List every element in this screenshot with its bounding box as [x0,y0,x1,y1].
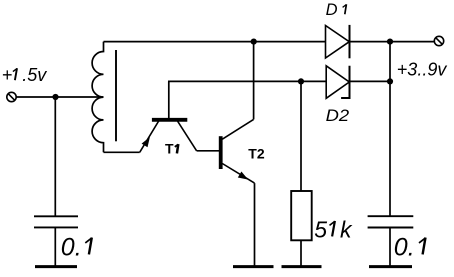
wire D1 cathode to terminal OUT [350,41,435,43]
svg-text:5: 5 [314,217,327,243]
label +1.5v [2,65,48,85]
label D1 [326,1,347,19]
svg-text:T2: T2 [248,146,265,162]
svg-text:0.: 0. [394,233,415,261]
resistor R1 body [291,191,312,240]
diode D1 cathode bar [349,25,351,58]
value 0.1 (C1) [61,233,92,261]
inductor L1 core [115,50,117,141]
node B junction [298,78,304,84]
diode D2 cathode bar with foot [341,66,349,98]
svg-text:.5v: .5v [22,65,47,85]
wire output node down to C2 [389,42,391,217]
svg-text:+: + [2,65,13,85]
wire R1 to ground [300,240,302,266]
wire node B down to R1 [300,81,302,191]
wire T1 collector to T2 base [197,150,219,152]
svg-text:D: D [326,1,338,19]
label T2 [248,146,265,162]
terminal IN (+1.5v) [7,92,16,101]
diode D1 triangle [326,26,350,59]
wire C1 to ground [54,227,56,266]
svg-text:D2: D2 [326,107,350,125]
svg-text:k: k [340,217,353,243]
node OUT lower junction [387,78,393,84]
svg-text:+3..9v: +3..9v [397,59,448,79]
wire input to coil tap [16,96,103,98]
label D2 [326,107,350,125]
capacitor C1 plates [34,216,78,227]
wire junction down to C1 [54,97,56,216]
transistor T2 base bar [219,136,223,169]
transistor T2 collector [222,119,253,139]
wire D2 cathode to output node [350,80,391,82]
terminal OUT (+3..9v) [434,36,443,45]
ground T2 [233,265,274,268]
transistor T1 base bar [152,118,187,122]
node A junction [251,39,257,45]
transistor T1 emitter [140,121,159,152]
diode D2 triangle [326,66,349,99]
wire T2 emitter to ground [254,183,256,266]
wire T2 collector to node A [253,42,255,120]
node OUT top junction [387,39,393,45]
value 51k (R1) [314,217,353,243]
svg-text:0.: 0. [61,233,82,261]
ground R1 [282,265,322,268]
node input/C1 junction [52,94,58,100]
wire T1 base to node B [168,80,326,82]
transistor T2 emitter [222,164,254,184]
svg-text:T: T [165,141,174,157]
ground C2 [369,265,412,268]
wire L1 bottom to T1 emitter [104,151,140,153]
capacitor C2 plates [368,216,414,227]
transistor T1 base lead [168,81,170,118]
label T1 [165,141,178,157]
value 0.1 (C2) [394,233,426,261]
wire C2 to ground [389,228,391,267]
inductor L1 winding [92,42,103,153]
label +3..9v [397,59,448,79]
ground C1 [35,265,77,268]
transistor T1 collector [178,121,197,151]
wire L1 top to node A [104,41,326,43]
